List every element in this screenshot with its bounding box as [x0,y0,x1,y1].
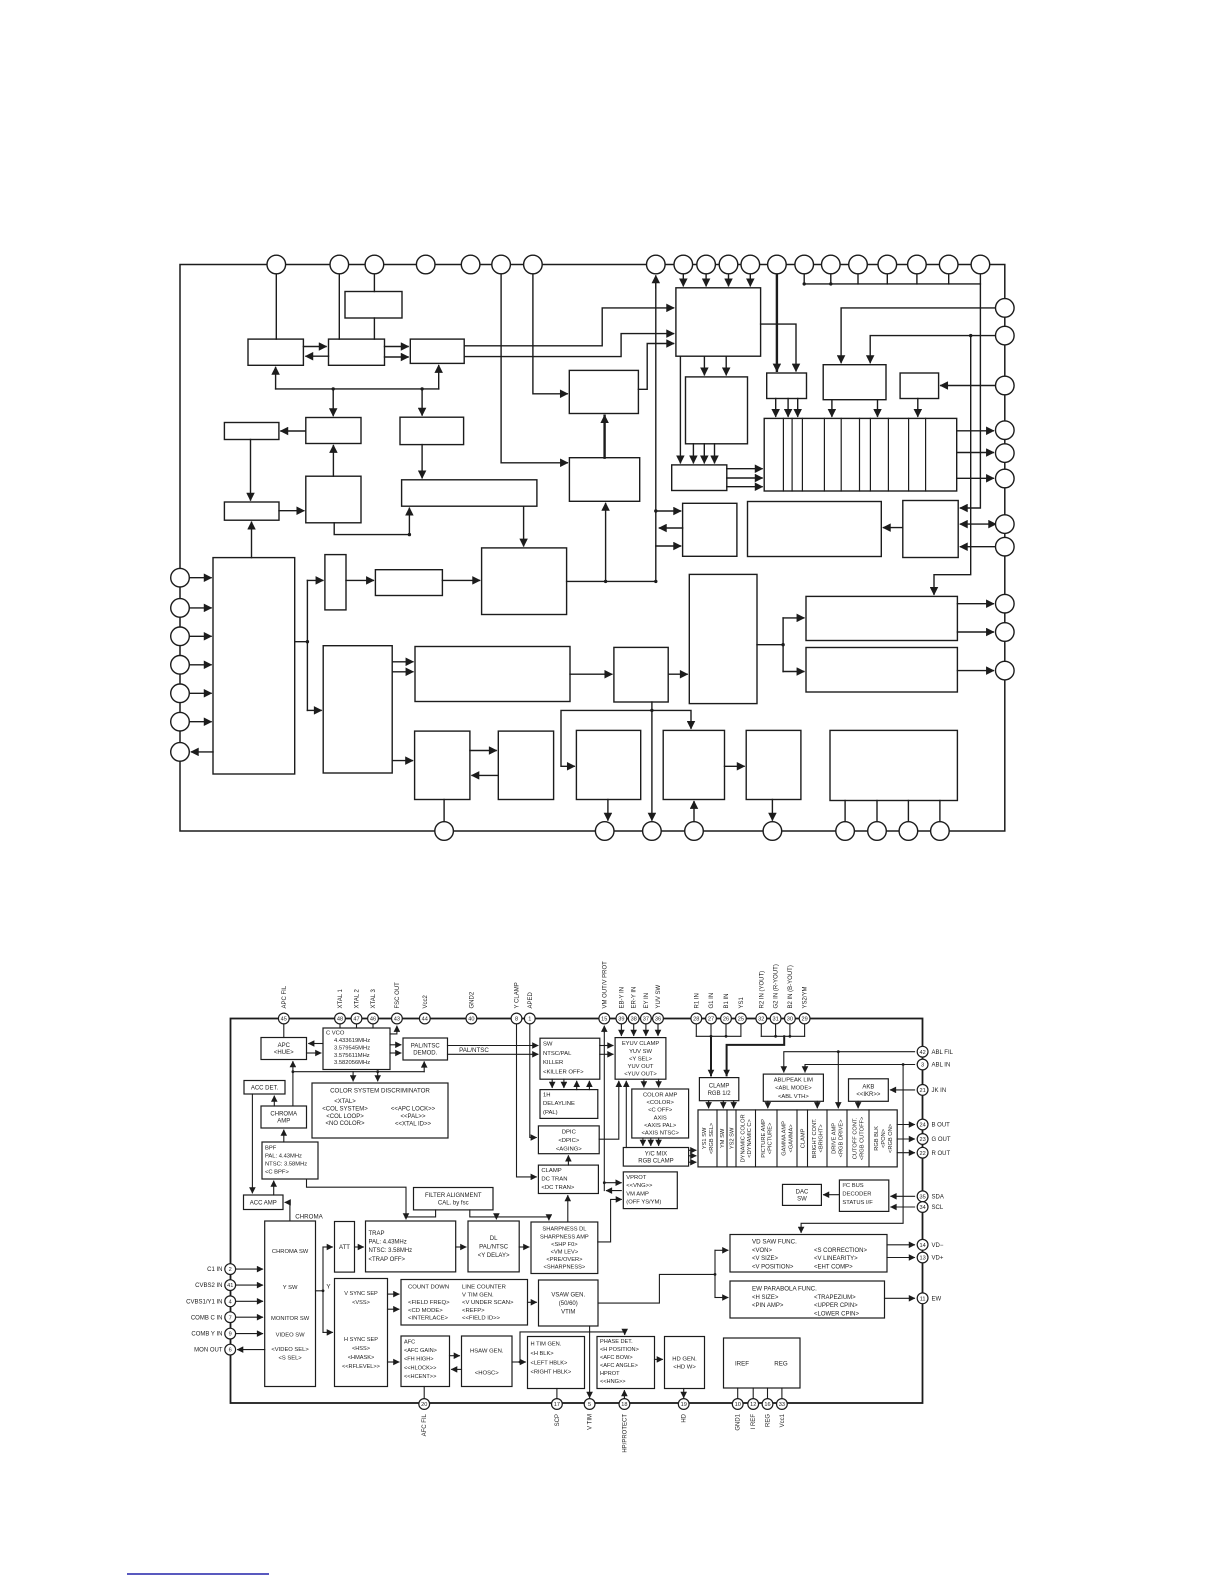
block att [325,555,346,610]
svg-text:PAL: 4.43MHz: PAL: 4.43MHz [369,1240,407,1246]
svg-text:<<RFLEVEL>>: <<RFLEVEL>> [342,1364,380,1370]
wire cal to sharpness [548,1217,550,1220]
svg-text:10: 10 [735,1402,741,1408]
svg-text:32: 32 [758,1017,764,1023]
wire bpf to chroma amp [283,1130,285,1142]
wire hsaw to htim [512,1361,525,1363]
block CLAMP DC TRAN [538,1165,598,1193]
svg-text:AFC FIL: AFC FIL [422,1413,428,1436]
svg-text:GAMMA AMP: GAMMA AMP [782,1121,788,1156]
wire abl in branch [801,1065,903,1233]
wire fsc pin arrow up [655,276,657,288]
block DAC SW [783,1184,822,1205]
wire to vd saw [715,1249,728,1251]
junction [408,533,411,536]
svg-text:18: 18 [621,1402,627,1408]
wire video sw to mon out [192,751,214,753]
wire pin1 to dpic [530,1024,536,1138]
bottom pin 5 [763,822,782,841]
svg-text:<AXIS PAL>: <AXIS PAL> [644,1123,677,1129]
wire xtal1 [339,1024,341,1028]
left pin 4 [171,656,190,675]
pin 35 SDA [917,1191,928,1202]
wire rgb2 to clamp [727,1036,785,1075]
svg-text:24: 24 [919,1123,925,1129]
block H TIM GEN [528,1337,585,1389]
wire iref pin [767,1388,769,1399]
svg-text:CUTOFF CONT.: CUTOFF CONT. [853,1117,859,1159]
wire video sw split [295,580,308,710]
svg-text:LINE COUNTER: LINE COUNTER [462,1285,506,1291]
wire pin to eyuv [633,1024,635,1036]
svg-text:<ABL MODE>: <ABL MODE> [775,1086,812,1092]
svg-text:<<HCENT>>: <<HCENT>> [404,1374,436,1380]
svg-text:CHROMA: CHROMA [270,1112,297,1118]
pin 2 C1 IN [225,1264,236,1275]
wire demod to killer sw 1 [385,346,409,348]
pin 31 G2 IN (R-YOUT) [770,1013,781,1024]
footer rule [127,1573,269,1575]
wire ycmix to matrix [689,1155,696,1157]
pin 5 V TIM [584,1399,595,1410]
svg-text:ABL/PEAK LIM: ABL/PEAK LIM [774,1078,813,1084]
wire S to matrix [727,486,762,488]
wire vprot out left [607,1190,622,1192]
svg-text:VIDEO SW: VIDEO SW [276,1333,306,1339]
wire iref pin [737,1388,739,1399]
svg-text:35: 35 [919,1194,925,1200]
svg-text:COLOR AMP: COLOR AMP [643,1093,678,1099]
wire feedback down H [421,389,423,415]
wire pin to eyuv [645,1024,647,1036]
svg-text:PAL/NTSC: PAL/NTSC [479,1245,509,1251]
wire chroma Y split [316,1247,324,1332]
wire pin stub rgb1 [695,1024,697,1037]
block h tim gen [576,730,640,799]
top pin 4 [416,255,435,274]
svg-text:COMB C IN: COMB C IN [191,1315,223,1321]
svg-text:<H BLK>: <H BLK> [531,1351,555,1357]
wire AC out left [660,527,683,529]
pin 45 APC FIL [278,1013,289,1024]
svg-text:COLOR SYSTEM DISCRIMINATOR: COLOR SYSTEM DISCRIMINATOR [330,1088,430,1095]
svg-text:MON OUT: MON OUT [194,1348,223,1354]
top pin 10 [697,255,716,274]
wire eyuv to coloramp 1 [643,1079,645,1087]
block killer sw [410,339,464,363]
wire pin to APC block [275,265,277,340]
svg-text:34: 34 [919,1205,925,1211]
svg-text:HD: HD [682,1413,688,1422]
wire delayline to killer 2 [588,1081,590,1089]
block 1h delayline [683,503,737,556]
svg-text:BRIGHT CONT.: BRIGHT CONT. [812,1118,818,1158]
wire VCO to APC [309,1043,323,1045]
wire input pin 3 to video sw [189,635,211,637]
right pin 6 [996,469,1015,488]
svg-text:GND2: GND2 [469,991,475,1008]
wire matrix out [957,477,994,479]
wire P to matrix [775,399,777,417]
svg-text:I REF: I REF [751,1414,757,1430]
svg-text:STATUS I/F: STATUS I/F [842,1200,873,1206]
junction [292,1070,295,1073]
svg-text:<TRAP OFF>: <TRAP OFF> [369,1257,406,1263]
wire killer to delayline 2 [563,1079,565,1087]
wire pin to eyuv [620,1024,622,1036]
bottom pin 1 [435,822,454,841]
wire acc det to acc amp [251,1094,253,1193]
junction [774,1035,777,1038]
wire pin15 arrow up [603,1026,605,1032]
svg-text:<HSS>: <HSS> [352,1346,370,1352]
svg-text:16: 16 [764,1402,770,1408]
block APC [248,339,303,365]
wire R to matrix [917,399,919,417]
block CHROMA SW [265,1221,316,1387]
svg-text:<H POSITION>: <H POSITION> [600,1347,639,1353]
block demod [329,339,385,365]
svg-text:ACC DET.: ACC DET. [251,1085,279,1091]
wire F to J [250,440,252,501]
svg-text:47: 47 [353,1017,359,1023]
svg-text:41: 41 [227,1283,233,1289]
svg-text:<<IKR>>: <<IKR>> [856,1092,881,1098]
svg-text:<RGB SEL>: <RGB SEL> [709,1122,715,1154]
wire fsc split right [652,710,691,728]
svg-text:<<XTAL ID>>: <<XTAL ID>> [395,1121,432,1127]
svg-text:APC FIL: APC FIL [282,985,288,1008]
svg-text:VM AMP: VM AMP [626,1191,649,1197]
top pin 7 [524,255,543,274]
svg-text:B1 IN: B1 IN [724,993,730,1008]
wire cal to DL [495,1217,497,1219]
pin 14 VD− [917,1239,928,1250]
svg-text:23: 23 [919,1137,925,1143]
svg-text:<AXIS NTSC>: <AXIS NTSC> [642,1131,680,1137]
block IREF REG [724,1338,801,1388]
svg-text:V TIM: V TIM [588,1414,594,1430]
block count down [375,570,442,596]
wire pin stub rgb2 [804,1024,806,1037]
junction [969,334,972,337]
wire demod to APC [306,355,329,357]
svg-text:<RIGHT HBLK>: <RIGHT HBLK> [531,1370,572,1376]
wire eyuv to big block [638,344,673,390]
wire abl fil branch [837,1052,839,1108]
svg-text:<XTAL>: <XTAL> [334,1099,356,1105]
wire clamp to matrix [708,1101,710,1108]
svg-text:NTSC: 3.58MHz: NTSC: 3.58MHz [369,1248,413,1254]
svg-text:<LEFT HBLK>: <LEFT HBLK> [531,1360,569,1366]
svg-text:HPROT: HPROT [600,1371,620,1377]
pin 32 R2 IN (YOUT) [756,1013,767,1024]
svg-text:<VON>: <VON> [752,1248,773,1254]
svg-text:44: 44 [422,1017,428,1023]
block eyuv clamp [569,370,638,413]
svg-text:12: 12 [750,1402,756,1408]
wire chroma sw to acc amp [285,1202,290,1221]
bottom pin 6 [836,822,855,841]
svg-text:VD−: VD− [932,1243,944,1249]
wire to sync sep [307,709,321,711]
svg-text:<COLOR>: <COLOR> [647,1100,675,1106]
svg-text:<PICTURE>: <PICTURE> [768,1122,774,1154]
block sharpness [482,548,567,615]
svg-text:<AFC BOW>: <AFC BOW> [600,1355,633,1361]
svg-text:AMP: AMP [277,1119,290,1125]
left pin 6 [171,712,190,731]
pin 44 Vcc2 [419,1013,430,1024]
wire VCO to demod 2 [390,1052,401,1054]
pin 13 VD+ [917,1252,928,1263]
block VPROT VM AMP [623,1172,677,1209]
junction [654,509,657,512]
left pin 7 [171,743,190,762]
svg-text:<<FIELD ID>>: <<FIELD ID>> [462,1316,501,1322]
svg-text:VTIM: VTIM [561,1310,575,1316]
block VSAW GEN [539,1280,599,1326]
block CHROMA AMP [261,1106,307,1128]
svg-text:<V SIZE>: <V SIZE> [752,1256,779,1262]
wire right pin to Q 1 [841,308,995,363]
svg-text:<V LINEARITY>: <V LINEARITY> [814,1256,858,1262]
junction [376,1070,379,1073]
svg-text:VM OUT/V PROT: VM OUT/V PROT [602,961,608,1009]
wire Y to Z [570,673,612,675]
top pin 11 [719,255,738,274]
svg-text:B2 IN (B-YOUT): B2 IN (B-YOUT) [788,965,794,1008]
svg-text:21: 21 [919,1088,925,1094]
svg-text:G1 IN: G1 IN [709,993,715,1009]
wire vsync to countdown 1 [388,1293,399,1295]
svg-text:SDA: SDA [932,1194,944,1200]
wire in pin to chroma sw [236,1316,263,1318]
wire right pin AE bidir [961,523,996,525]
bottom pin 8 [899,822,918,841]
svg-text:MONITOR SW: MONITOR SW [271,1316,310,1322]
block color amp [569,458,639,502]
block sw ntsc killer [676,288,761,356]
svg-text:YS2/YM: YS2/YM [803,986,809,1008]
wire pin34 to i2c [891,1206,915,1208]
junction [710,1035,713,1038]
svg-text:<VM LEV>: <VM LEV> [551,1250,579,1256]
wire big block to AN [703,356,705,375]
wire sharpness to vprot [598,1199,622,1242]
svg-text:HSAW GEN.: HSAW GEN. [470,1348,504,1354]
svg-text:G OUT: G OUT [932,1137,951,1143]
wire demod to killer sw 2 [385,356,409,358]
wire VCO to demod [373,318,375,339]
top pin 2 [330,255,349,274]
svg-text:<PIN AMP>: <PIN AMP> [752,1303,784,1309]
svg-text:<COL SYSTEM>: <COL SYSTEM> [322,1106,368,1112]
wire pin stub rgb1 [725,1024,727,1037]
svg-text:<RGB CUTOFF>: <RGB CUTOFF> [859,1116,865,1160]
svg-text:15: 15 [601,1017,607,1023]
block EW PARABOLA FUNC [730,1281,885,1318]
wire big block to AN [725,356,727,375]
svg-text:<<HLOCK>>: <<HLOCK>> [404,1365,436,1371]
wire killer out A [464,308,673,346]
block ACC AMP [244,1195,284,1210]
pin 10 GND1 [732,1399,743,1410]
junction [654,580,657,583]
svg-text:<DPIC>: <DPIC> [558,1138,580,1144]
wire video sw to J [251,522,253,557]
right pin 1 [996,299,1015,318]
svg-text:CAL. by fsc: CAL. by fsc [438,1200,469,1206]
wire input pin 2 to video sw [189,607,211,609]
block I2C decoder [839,1180,888,1211]
wire ycmix to matrix [689,1149,696,1151]
svg-text:XTAL 3: XTAL 3 [371,988,377,1008]
wire xtal3 [372,1024,374,1028]
svg-text:3.575611MHz: 3.575611MHz [334,1053,370,1059]
junction [650,709,653,712]
wire xtal2 [356,1024,358,1028]
svg-text:SCL: SCL [932,1205,944,1211]
wire AN to S [714,444,716,463]
wire matrix to out pin [897,1152,914,1154]
svg-text:ACC AMP: ACC AMP [250,1200,277,1206]
wire pin to big block [749,274,751,286]
svg-text:<GAMMA>: <GAMMA> [788,1124,794,1153]
wire Z to AF [668,673,687,675]
pin 21 JK IN [917,1085,928,1096]
bottom pin 9 [931,822,950,841]
svg-text:<YUV OUT>: <YUV OUT> [624,1072,657,1078]
svg-text:<S SEL>: <S SEL> [278,1356,302,1362]
junction [837,1050,840,1053]
block HSAW GEN [462,1336,513,1387]
junction [604,580,607,583]
wire input pin 4 to video sw [189,664,211,666]
svg-text:11: 11 [920,1296,926,1302]
wire Z to pin [651,702,653,820]
junction [405,1216,408,1219]
wire big block to S [679,356,681,463]
svg-text:C VCO: C VCO [326,1031,345,1037]
svg-text:HP/PROTECT: HP/PROTECT [622,1414,628,1453]
wire feedback to APC [292,1062,294,1106]
wire filter align stub2 [470,1210,549,1217]
svg-text:9: 9 [229,1332,232,1338]
wire i2c to dac [824,1194,840,1196]
wire APC to demod [303,346,326,348]
wire AM to pin [907,801,909,822]
wire countdown to vsaw [528,1301,537,1303]
wire chroma amp to acc det [273,1096,275,1106]
svg-text:TRAP: TRAP [369,1231,385,1237]
wire Y to att [323,1246,332,1248]
left pin 5 [171,684,190,703]
junction [803,282,806,285]
block ACC DET [244,1081,285,1095]
block phase det [689,574,757,703]
svg-text:DECODER: DECODER [842,1192,871,1198]
wire vsaw to split [598,1250,715,1303]
pin 1 APED [524,1013,535,1024]
wire sync to Y 1 [392,661,413,663]
svg-text:31: 31 [772,1017,778,1023]
wire branch to AG [934,336,971,595]
svg-text:<VSS>: <VSS> [352,1300,370,1306]
wire att to counter [346,579,373,581]
svg-text:<SHP F0>: <SHP F0> [551,1242,578,1248]
svg-text:V SYNC SEP: V SYNC SEP [344,1291,378,1297]
wire to AC in 1 [656,510,681,512]
wire Q to matrix [831,400,833,417]
svg-text:SCP: SCP [555,1414,561,1426]
wire ycmix to eyuv [625,1081,627,1147]
svg-text:YS1: YS1 [739,996,745,1008]
svg-text:5: 5 [588,1402,591,1408]
wire killer to eyuv 1 [600,1045,613,1047]
svg-text:YS2 SW: YS2 SW [730,1127,736,1149]
block PHASE DET [597,1337,655,1389]
svg-text:YS1 SW: YS1 SW [702,1127,708,1149]
wire pin to VCO block [373,265,375,292]
pin 33 Vcc1 [777,1399,788,1410]
pin 39 EB-Y IN [616,1013,627,1024]
svg-text:PAL/NTSC: PAL/NTSC [459,1047,489,1054]
svg-text:EYUV CLAMP: EYUV CLAMP [622,1041,660,1047]
svg-text:<REFP>: <REFP> [462,1308,485,1314]
wire fsc split left [561,710,652,766]
svg-text:CLAMP: CLAMP [541,1168,561,1174]
wire chroma sw to mon out [238,1349,265,1351]
wire AA to AB [470,750,496,752]
svg-text:40: 40 [468,1017,474,1023]
top pin 17 [878,255,897,274]
junction [306,640,309,643]
wire hsaw to afc [452,1368,462,1370]
svg-text:<FIELD FREQ>: <FIELD FREQ> [408,1300,450,1306]
wire right pin to AE [961,546,996,548]
wire top bus [804,283,980,285]
svg-text:(50/60): (50/60) [559,1301,578,1307]
pin 8 Y CLAMP [511,1013,522,1024]
pin 47 XTAL 2 [351,1013,362,1024]
wire abl fil line [784,1052,915,1072]
wire matrix out [957,452,994,454]
block VCO [345,292,402,319]
wire VCO to fsc out [390,1026,397,1034]
svg-text:Vcc2: Vcc2 [423,994,429,1008]
top pin 1 [267,255,286,274]
junction [714,1273,717,1276]
wire AK to AL [725,765,745,767]
svg-text:<<PAL>>: <<PAL>> [401,1114,426,1120]
block HD GEN [665,1337,705,1389]
svg-text:B OUT: B OUT [932,1123,951,1129]
wire AM to pin [939,801,941,822]
wire to AH [783,671,804,673]
block line counter [415,647,570,702]
svg-text:H SYNC SEP: H SYNC SEP [344,1337,378,1343]
block DL delay [468,1221,519,1272]
pin 22 R OUT [917,1147,928,1158]
svg-text:38: 38 [631,1017,637,1023]
wire input pin 1 to video sw [189,577,211,579]
left pin 2 [171,599,190,618]
svg-text:VSAW GEN.: VSAW GEN. [551,1293,585,1299]
svg-text:<NO COLOR>: <NO COLOR> [325,1121,365,1127]
svg-text:<DC TRAN>: <DC TRAN> [541,1185,575,1191]
svg-text:<COL LOOP>: <COL LOOP> [326,1114,364,1120]
